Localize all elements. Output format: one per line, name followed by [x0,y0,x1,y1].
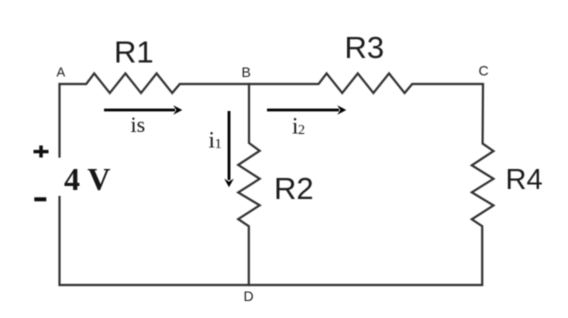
svg-text:R1: R1 [114,35,154,70]
svg-text:is: is [131,112,146,137]
svg-text:C: C [479,63,489,79]
svg-text:B: B [242,64,251,80]
svg-text:4 V: 4 V [64,161,111,197]
svg-text:R4: R4 [506,164,543,196]
svg-text:R2: R2 [274,171,314,206]
svg-text:1: 1 [215,137,222,152]
svg-text:D: D [244,288,254,304]
svg-text:R3: R3 [345,30,385,65]
svg-text:2: 2 [298,123,305,138]
svg-text:A: A [57,65,66,80]
